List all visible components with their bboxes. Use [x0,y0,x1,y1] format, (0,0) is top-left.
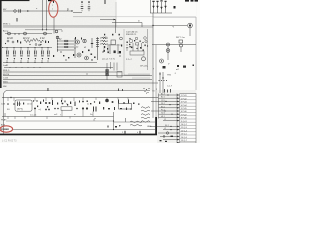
svg-text:1 P-01: 1 P-01 [181,95,187,97]
svg-text:m: m [138,21,140,23]
svg-text:AUX: AUX [1,123,6,126]
svg-text:G2.2: G2.2 [161,113,165,115]
svg-text:A1.3: A1.3 [161,93,165,96]
svg-text:Ass'y: Ass'y [3,30,9,33]
svg-text:4 P-04: 4 P-04 [181,105,187,107]
svg-text:R10 R2 C1: R10 R2 C1 [126,34,137,36]
svg-text:7 P-07: 7 P-07 [181,114,187,116]
svg-text:(777): (777) [17,108,23,111]
svg-text:C12 C34 C5: C12 C34 C5 [126,32,138,34]
svg-text:1.0-1.6: 1.0-1.6 [30,115,37,117]
svg-text:SM: SM [3,86,6,88]
svg-text:Dx: Dx [90,114,92,116]
svg-text:10 Q-2: 10 Q-2 [181,124,187,126]
svg-text:5 P-05: 5 P-05 [181,108,187,110]
svg-text:W01.5: W01.5 [3,70,10,72]
svg-text:#m: #m [152,91,155,93]
svg-text:C.L.7: C.L.7 [167,86,173,88]
svg-text:SW1: SW1 [3,81,9,83]
svg-text:2.2 c7: 2.2 c7 [126,59,133,61]
svg-text:2 P-02: 2 P-02 [181,98,187,100]
svg-text:12 Q-4: 12 Q-4 [181,130,187,132]
svg-text:2x: 2x [87,104,89,106]
svg-text:L2: L2 [164,128,166,130]
svg-text:L-C1 R-02 T3: L-C1 R-02 T3 [2,140,17,143]
svg-text:13 Q-5: 13 Q-5 [181,134,187,136]
svg-text:W1 *1 #m: W1 *1 #m [176,37,185,39]
svg-text:8 P-08: 8 P-08 [181,118,187,120]
svg-text:a.(: a.( [39,109,42,111]
svg-text:2*: 2* [168,64,170,66]
svg-text:K4.1: K4.1 [165,125,169,127]
svg-text:E3.1: E3.1 [161,106,165,108]
svg-text:B2.1: B2.1 [161,97,165,99]
svg-text:6 P-06: 6 P-06 [181,111,187,113]
svg-text:C2.5: C2.5 [161,100,165,102]
svg-text:PLAY: PLAY [1,118,7,121]
svg-text:GND: GND [147,126,152,128]
svg-text:J2: J2 [164,119,166,121]
svg-text:@?+|@+: @?+|@+ [140,66,149,68]
svg-text:14 Q-6: 14 Q-6 [181,137,187,139]
svg-text:MOD C: MOD C [3,23,11,25]
svg-text:3 P-03: 3 P-03 [181,102,187,104]
svg-text:2 12: 2 12 [40,38,45,40]
svg-text:MV: MV [3,9,7,11]
svg-text:F1.4: F1.4 [161,110,165,112]
svg-text:9 Q-01: 9 Q-01 [181,121,187,123]
svg-text:11 Q-3: 11 Q-3 [181,127,187,129]
svg-text:22 2 2: 22 2 2 [23,38,30,40]
svg-text:C1.B: C1.B [3,78,8,80]
svg-text:h: h [137,132,138,134]
svg-text:MUTE: MUTE [3,74,10,76]
svg-text:22 22: 22 22 [7,38,13,40]
svg-text:2M: 2M [66,8,68,11]
svg-text:POWER: POWER [1,129,9,131]
svg-text:D1.2: D1.2 [161,103,165,105]
svg-text:L=A1: L=A1 [3,64,9,67]
svg-text:15 Q-7: 15 Q-7 [181,140,187,142]
svg-text:a2a =1 *| |*.7(: a2a =1 *| |*.7( [102,59,115,61]
svg-text:H1.1: H1.1 [161,116,165,118]
